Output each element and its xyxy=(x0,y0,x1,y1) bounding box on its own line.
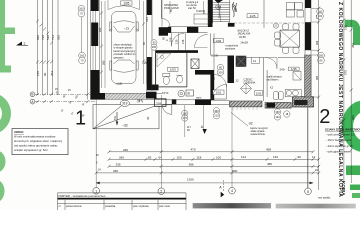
svg-text:90: 90 xyxy=(142,42,146,45)
svg-text:160: 160 xyxy=(79,7,84,11)
svg-text:SCIANY ZEWN. WARSTWOWE:: SCIANY ZEWN. WARSTWOWE: xyxy=(325,128,360,132)
right wall lines xyxy=(304,0,306,97)
interior L wall vertical xyxy=(210,70,214,100)
svg-text:254: 254 xyxy=(50,71,54,76)
canopy arrow xyxy=(116,112,118,125)
south door arc west xyxy=(162,105,172,115)
garage inner dim lines xyxy=(102,1,144,88)
kitchen label box xyxy=(289,67,300,71)
svg-text:215: 215 xyxy=(183,116,188,120)
bath top wall black xyxy=(156,50,198,53)
lamp circle xyxy=(273,23,278,28)
axis circle 4 xyxy=(229,187,236,194)
svg-text:580: 580 xyxy=(101,60,105,65)
box 1/25 xyxy=(247,14,258,18)
bottom dim row C xyxy=(109,165,313,167)
kitchen door arc xyxy=(266,58,277,69)
bottom dim row A xyxy=(109,151,313,153)
svg-text:=19: =19 xyxy=(116,82,122,86)
svg-text:64: 64 xyxy=(159,156,163,160)
stairs arrow xyxy=(215,0,224,3)
sofa set xyxy=(286,3,303,17)
hall niche lines xyxy=(178,33,180,50)
svg-text:90: 90 xyxy=(298,155,302,159)
svg-text:118: 118 xyxy=(197,156,202,160)
svg-text:106: 106 xyxy=(169,37,173,42)
svg-text:11: 11 xyxy=(253,59,256,63)
svg-text:4: 4 xyxy=(231,189,233,193)
garage bottom E chunk xyxy=(146,92,157,99)
svg-text:360: 360 xyxy=(113,169,118,173)
boxed label right of canopy xyxy=(155,99,167,107)
svg-text:100: 100 xyxy=(183,111,188,115)
garage bottom wall lines xyxy=(105,92,162,94)
svg-text:pomieszczenie: pomieszczenie xyxy=(66,205,82,208)
hall vertical dim labels xyxy=(162,37,186,44)
fridge xyxy=(293,72,301,81)
svg-text:90: 90 xyxy=(187,129,190,132)
south wall west segment lines xyxy=(155,99,195,101)
entry door arc xyxy=(195,35,208,48)
north arrow xyxy=(16,42,22,46)
canopy diagonals xyxy=(93,105,159,129)
spiz pillar xyxy=(159,27,168,36)
bath east wall xyxy=(186,53,188,87)
right wall window dims xyxy=(312,8,319,97)
kitchen text xyxy=(267,76,283,90)
svg-text:nr: nr xyxy=(59,205,61,208)
svg-text:~32: ~32 xyxy=(122,124,128,128)
bath west wall xyxy=(155,51,157,87)
hall door spec circles xyxy=(151,40,157,46)
svg-text:- 24cm styropian gr.15: - 24cm styropian gr.15 xyxy=(326,144,353,148)
svg-text:34,56: 34,56 xyxy=(239,35,246,39)
legend 2 xyxy=(325,128,360,154)
terrace deck ticks xyxy=(233,107,257,110)
SE corner block xyxy=(293,97,314,107)
svg-text:114: 114 xyxy=(241,155,246,159)
salon south wall black xyxy=(195,99,211,105)
top dim marks mid xyxy=(170,9,206,14)
hall label 1/02 xyxy=(213,39,223,43)
svg-text:1/05: 1/05 xyxy=(123,1,129,5)
car label 1/05 xyxy=(121,1,132,5)
svg-text:240: 240 xyxy=(280,67,285,71)
wardrobe xyxy=(194,14,209,24)
watermark right small bars xyxy=(350,185,360,191)
svg-text:38: 38 xyxy=(68,100,72,104)
svg-text:-nawierzchnia: -nawierzchnia xyxy=(250,133,265,136)
leader to garden note xyxy=(231,113,248,127)
svg-text:UWAGI:: UWAGI: xyxy=(14,130,24,134)
svg-text:90: 90 xyxy=(212,76,216,80)
svg-text:5%: 5% xyxy=(113,116,117,120)
svg-text:5: 5 xyxy=(307,190,309,194)
svg-text:- tynk gipsowy wewn.: - tynk gipsowy wewn. xyxy=(326,150,352,154)
stove xyxy=(285,89,301,96)
watermark left blob mid xyxy=(0,151,6,173)
spiz label xyxy=(164,3,179,10)
shaft box xyxy=(191,59,199,69)
svg-text:JADALNIA: JADALNIA xyxy=(237,32,250,36)
svg-text:1350: 1350 xyxy=(187,178,194,182)
svg-text:530: 530 xyxy=(46,35,50,40)
spec circles terrace xyxy=(213,108,290,121)
left wall offset lines xyxy=(88,0,100,100)
left wall glazing lines xyxy=(93,11,96,70)
entry east wall xyxy=(208,0,213,27)
svg-text:14x29: 14x29 xyxy=(240,41,248,45)
axis circle 2 xyxy=(158,188,165,195)
right tick marks xyxy=(317,19,353,175)
svg-text:KOPIA: KOPIA xyxy=(341,181,346,196)
terrace door lines xyxy=(211,99,230,101)
dim ticks bottom xyxy=(95,150,315,174)
svg-text:260: 260 xyxy=(119,156,124,160)
svg-text:140: 140 xyxy=(273,155,278,159)
svg-text:656: 656 xyxy=(57,35,61,40)
sink xyxy=(274,92,279,100)
svg-text:150: 150 xyxy=(275,110,280,114)
table grid xyxy=(58,193,187,210)
kitchen counter xyxy=(266,70,268,97)
axis line A xyxy=(35,101,96,103)
svg-text:45: 45 xyxy=(68,89,71,92)
svg-text:52: 52 xyxy=(60,108,64,112)
car xyxy=(109,12,139,84)
svg-text:300: 300 xyxy=(214,109,219,113)
watermark left blob low xyxy=(0,180,5,203)
south wall hatch mid xyxy=(230,101,263,107)
svg-text:1/35: 1/35 xyxy=(291,67,297,71)
svg-text:W celu zminimalizowania mostko: W celu zminimalizowania mostkow xyxy=(14,135,55,139)
bottom dim row D xyxy=(96,172,313,174)
svg-text:22: 22 xyxy=(315,168,319,172)
svg-text:90: 90 xyxy=(43,72,47,76)
label 1/01 b xyxy=(213,90,224,94)
shower xyxy=(157,54,171,68)
svg-text:65: 65 xyxy=(148,156,152,160)
svg-text:36: 36 xyxy=(146,116,150,120)
svg-text:670: 670 xyxy=(344,70,348,75)
svg-text:garazem: garazem xyxy=(114,55,124,59)
svg-text:120: 120 xyxy=(275,115,280,119)
left line ticks xyxy=(36,20,53,64)
svg-text:902: 902 xyxy=(351,115,355,120)
right axis dim lines xyxy=(318,0,320,190)
watermark right bar xyxy=(346,166,360,176)
svg-text:800: 800 xyxy=(232,169,237,173)
svg-text:- tynk cienkowarstw. 0,5: - tynk cienkowarstw. 0,5 xyxy=(326,132,355,136)
axis verticals to circles xyxy=(96,95,308,188)
diamond table xyxy=(241,83,252,94)
label 1/01 xyxy=(255,91,263,96)
bottom dim row E xyxy=(96,182,313,184)
svg-text:-32: -32 xyxy=(248,122,253,126)
svg-text:319: 319 xyxy=(122,102,128,106)
bath SW chunk xyxy=(147,85,159,91)
svg-text:215: 215 xyxy=(214,114,219,118)
left wall window pier xyxy=(91,23,98,47)
oval 319 xyxy=(120,100,129,106)
svg-text:- 15cm beton komork.: - 15cm beton komork. xyxy=(326,138,352,142)
svg-text:KZ: KZ xyxy=(270,86,274,89)
toilet xyxy=(163,73,170,76)
svg-text:Z KOLOROWEGO NADRUKU JEST NADR: Z KOLOROWEGO NADRUKU JEST NADRUKOWANA LE… xyxy=(337,2,343,197)
svg-text:ocieplic styropianem gr. 5cm: ocieplic styropianem gr. 5cm xyxy=(14,148,49,152)
svg-text:336: 336 xyxy=(116,163,121,167)
svg-text:1/25: 1/25 xyxy=(250,14,256,18)
svg-text:714: 714 xyxy=(51,35,55,40)
garage SW corner wall xyxy=(91,70,106,100)
svg-text:100: 100 xyxy=(177,156,182,160)
garage gate arcs xyxy=(108,6,140,10)
watermark left ring xyxy=(0,97,7,130)
svg-text:1/02: 1/02 xyxy=(215,39,221,43)
south wall black pier xyxy=(172,99,177,104)
svg-text:480: 480 xyxy=(267,162,272,166)
south wall kitchen segment xyxy=(265,102,291,108)
svg-text:pow. uzytkowa: pow. uzytkowa xyxy=(133,205,149,208)
axis line B xyxy=(35,93,96,95)
svg-text:9: 9 xyxy=(165,39,169,41)
left edge row labels xyxy=(96,154,101,172)
hall top wall w segment xyxy=(168,27,171,33)
window spec circles right wall xyxy=(317,8,325,64)
svg-text:termicznych, wzgledem okien i: termicznych, wzgledem okien i nadprozy xyxy=(14,139,63,143)
svg-text:(od spodu) nalezy gruntownie c: (od spodu) nalezy gruntownie calosc xyxy=(14,143,58,147)
svg-text:2: 2 xyxy=(319,106,330,128)
svg-text:260: 260 xyxy=(123,148,128,152)
garage bottom wall hatch xyxy=(105,93,146,99)
svg-text:30: 30 xyxy=(81,102,85,106)
svg-text:100: 100 xyxy=(216,156,221,160)
svg-text:-24: -24 xyxy=(137,100,141,104)
corridor walls xyxy=(211,0,306,101)
bath label 1/03 xyxy=(168,67,178,71)
left tiny labels cluster xyxy=(55,88,86,118)
svg-text:pow. netto: pow. netto xyxy=(159,205,171,208)
svg-text:PARTER - zestawienie pomiesz: PARTER - zestawienie pomieszczen xyxy=(59,194,106,198)
garage right wall lines xyxy=(147,0,153,91)
svg-text:WL.05: WL.05 xyxy=(211,55,219,58)
bottom dim row B xyxy=(109,158,313,160)
spiz door arc xyxy=(162,19,170,27)
svg-text:165: 165 xyxy=(36,71,40,76)
svg-text:1/01: 1/01 xyxy=(256,91,262,95)
svg-text:A: A xyxy=(219,185,222,189)
svg-text:B: B xyxy=(31,93,33,97)
hall top wall face lines xyxy=(168,26,208,28)
svg-text:160: 160 xyxy=(80,54,85,58)
below bath box xyxy=(186,90,194,96)
dining table xyxy=(280,30,299,47)
left dim labels xyxy=(36,35,61,76)
spec circles terrace west xyxy=(182,110,188,116)
svg-text:KP III: KP III xyxy=(162,91,169,95)
svg-text:punktowe: punktowe xyxy=(225,48,236,51)
svg-text:265: 265 xyxy=(74,94,79,100)
terrace west dim lines xyxy=(184,105,186,137)
svg-text:470: 470 xyxy=(191,147,196,151)
svg-text:136: 136 xyxy=(181,39,185,44)
svg-text:9: 9 xyxy=(142,100,144,104)
svg-text:31B: 31B xyxy=(156,101,161,105)
salon beam dashed xyxy=(234,22,304,24)
svg-text:1/01: 1/01 xyxy=(215,91,221,95)
left window dim connector xyxy=(81,17,83,52)
salon label xyxy=(225,29,250,51)
garage vent text xyxy=(114,43,137,60)
watermark right ring letter xyxy=(347,106,360,146)
below bath circle xyxy=(178,90,185,97)
svg-text:90: 90 xyxy=(62,94,66,98)
svg-text:1/03: 1/03 xyxy=(170,68,176,72)
svg-text:24: 24 xyxy=(98,169,101,172)
svg-text:129: 129 xyxy=(174,39,178,44)
svg-text:720: 720 xyxy=(41,35,45,40)
left wall pier top xyxy=(91,0,99,11)
axis circle 5 xyxy=(305,188,312,195)
spiz west wall xyxy=(161,0,163,19)
hall door arc xyxy=(171,33,184,46)
svg-text:posadzka: posadzka xyxy=(105,205,116,208)
svg-text:200: 200 xyxy=(152,46,157,49)
hall top wall e segment xyxy=(187,27,198,33)
washbasin xyxy=(177,76,183,83)
svg-text:95: 95 xyxy=(162,37,166,40)
door box xyxy=(252,57,260,63)
salon lower label xyxy=(244,78,256,85)
shaft 2 xyxy=(236,56,246,67)
svg-text:wym: wym xyxy=(196,97,201,100)
svg-text:12: 12 xyxy=(236,79,240,83)
left dimension lines xyxy=(38,0,59,95)
svg-text:mw spoldz.: mw spoldz. xyxy=(318,196,331,200)
mid wall xyxy=(228,56,235,84)
svg-text:150: 150 xyxy=(344,25,348,30)
svg-text:820: 820 xyxy=(36,35,40,40)
svg-text:~23: ~23 xyxy=(124,27,129,31)
svg-text:nad blatem: nad blatem xyxy=(267,78,279,81)
watermark right hook letter xyxy=(345,23,357,45)
axis circle A xyxy=(30,99,35,104)
interior L wall horizontal xyxy=(195,70,214,75)
top leader texts xyxy=(186,1,203,13)
plant xyxy=(232,2,236,17)
stairs treads xyxy=(213,0,230,23)
axis circle 1 xyxy=(93,188,100,195)
right wall piers xyxy=(305,0,311,8)
table thick border xyxy=(58,198,187,200)
svg-text:312: 312 xyxy=(145,17,149,22)
axis circle B xyxy=(30,92,35,97)
svg-text:180: 180 xyxy=(319,54,324,58)
svg-text:458: 458 xyxy=(266,147,271,151)
svg-text:16: 16 xyxy=(96,154,99,157)
watermark left letter xyxy=(0,0,15,73)
svg-text:262: 262 xyxy=(98,27,102,32)
window spec circles left wall xyxy=(78,5,85,64)
svg-text:1: 1 xyxy=(75,108,86,130)
left tick cluster xyxy=(36,93,98,103)
bath bottom wall xyxy=(156,86,187,88)
svg-text:200: 200 xyxy=(218,70,223,74)
svg-text:382: 382 xyxy=(351,43,355,48)
chairs xyxy=(275,24,299,54)
canopy outline xyxy=(93,105,159,129)
stairs bottom bar xyxy=(228,23,235,27)
uwagi box xyxy=(12,129,68,155)
table top line xyxy=(58,192,187,194)
hall-salon door arc xyxy=(214,75,227,88)
svg-text:386: 386 xyxy=(189,163,194,167)
hall spec circles xyxy=(217,64,223,70)
garage right wall piers xyxy=(147,0,152,15)
salon door arcs xyxy=(212,84,227,99)
